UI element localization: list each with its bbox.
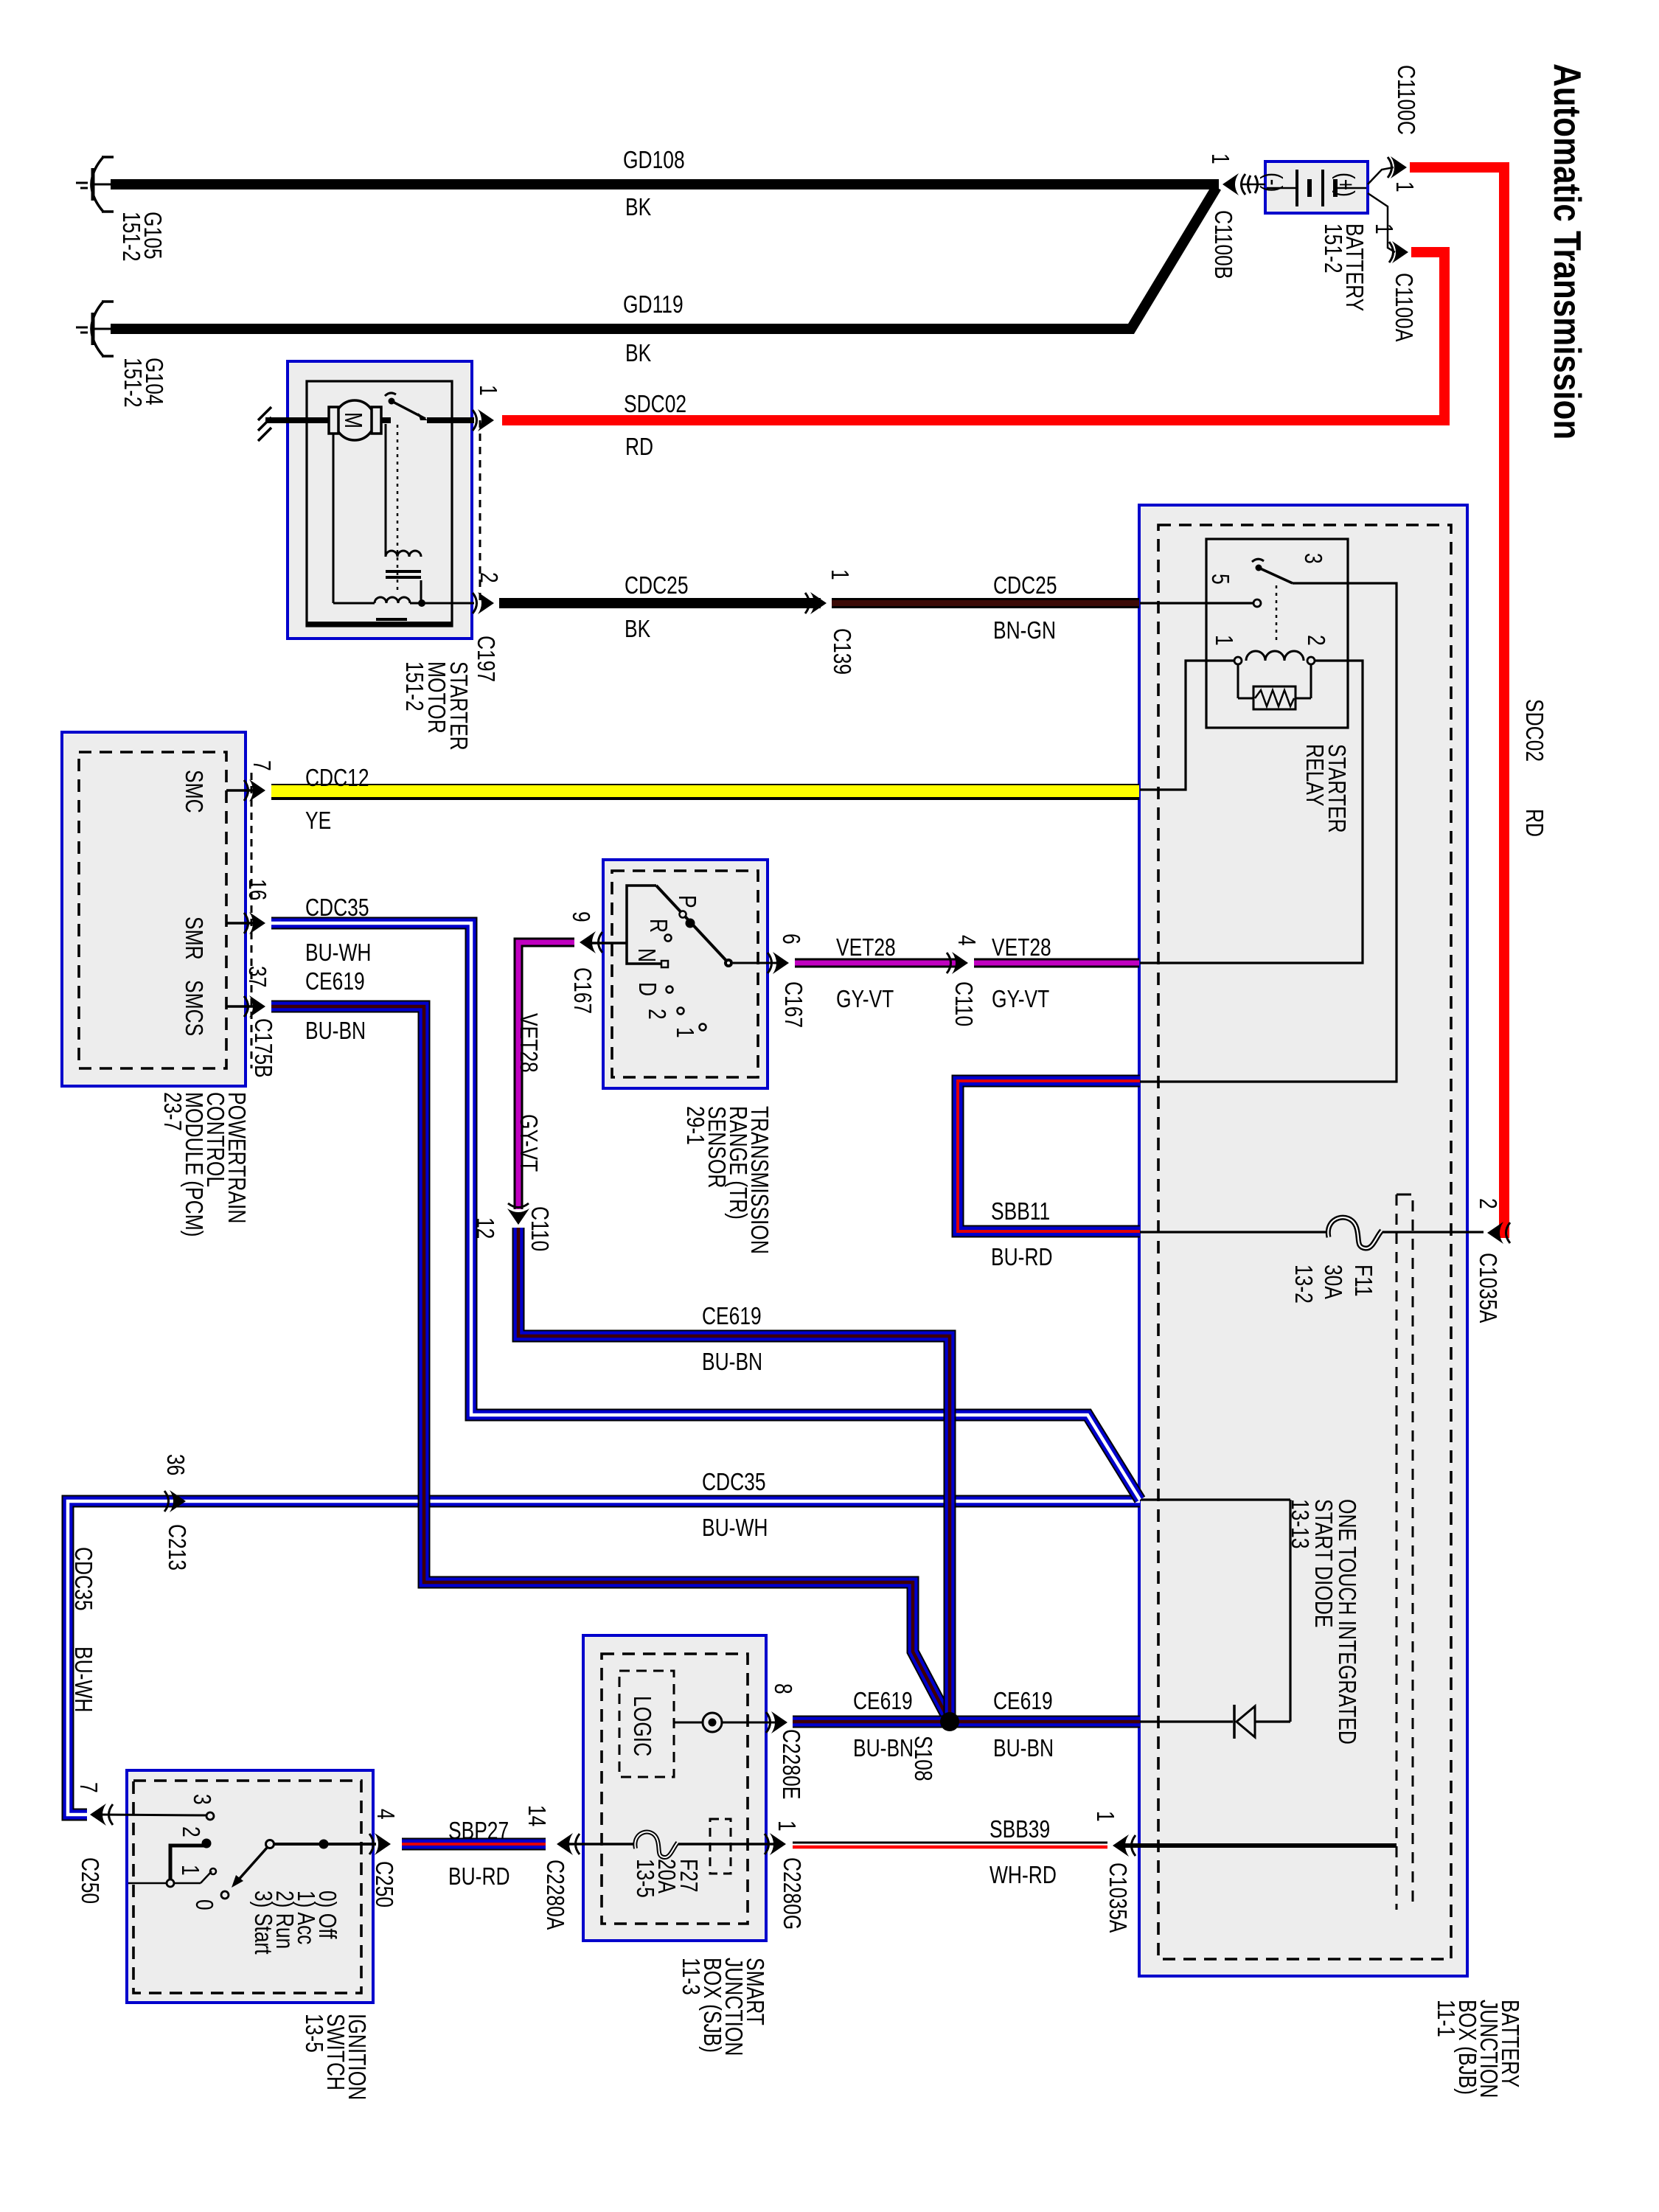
svg-text:C139: C139 [828,628,855,675]
svg-text:C110: C110 [950,981,976,1026]
ignition switch box outline [127,1770,373,2003]
connector PCM SMCS pin 37 [244,995,265,1018]
wire CDC25 BK [499,598,821,608]
svg-text:C1100B: C1100B [1209,210,1236,279]
svg-text:G105151-2: G105151-2 [117,212,165,262]
svg-text:2: 2 [177,1826,204,1837]
label 1 C139 [826,569,855,675]
svg-text:SMR: SMR [180,917,206,960]
label CDC35 BU-WH middle [702,1469,768,1541]
starter motor M [329,400,381,440]
label 14 C2280A [523,1805,568,1930]
label CDC25 BN-GN [993,572,1057,644]
svg-text:BU-RD: BU-RD [991,1244,1053,1270]
label VET28 GY-VT left [836,934,896,1012]
svg-text:BU-BN: BU-BN [853,1735,914,1761]
relay pin 1 internal wire [1140,661,1234,790]
svg-text:CDC25: CDC25 [993,572,1057,599]
ignition switch contact 2 [128,1826,212,1887]
junction solenoid coils [418,599,425,607]
svg-text:D: D [633,982,660,996]
svg-text:SDC02: SDC02 [1520,699,1547,762]
relay contact pin 5 [1206,574,1261,607]
svg-text:VET28: VET28 [992,934,1051,961]
connector PCM SMR pin 16 [244,912,265,934]
svg-text:SMARTJUNCTIONBOX (SJB)11-3: SMARTJUNCTIONBOX (SJB)11-3 [677,1958,768,2056]
svg-text:BU-WH: BU-WH [702,1514,768,1541]
SJB output circled dot [674,1713,778,1732]
label CDC12 YE [305,765,369,834]
label VET28 GY-VT vertical [515,1013,541,1172]
label TRANSMISSION RANGE (TR) SENSOR 29-1 [681,1106,772,1254]
wire SDC02 RD from C1100A to starter [502,252,1444,420]
label SDC02 RD horizontal [624,391,686,460]
svg-text:30A: 30A [1319,1265,1346,1299]
svg-text:(+): (+) [1332,173,1358,197]
chassis ground at starter motor [258,407,271,441]
TR contact D [633,982,672,996]
svg-text:C2280A: C2280A [541,1860,568,1930]
label F27 20A 13-5 [631,1859,701,1898]
svg-text:SDC02: SDC02 [624,391,686,417]
label GD108 BK [623,147,685,220]
svg-text:BU-BN: BU-BN [305,1018,366,1044]
battery positive lead to C1100C [1368,156,1407,184]
svg-text:2: 2 [1474,1198,1500,1209]
connector C197 dashed line [479,420,481,603]
wire VET28 GY-VT to BJB [974,959,1139,968]
label G105 151-2 [117,212,165,262]
svg-text:GD119: GD119 [623,291,684,318]
label C175B [249,1018,276,1078]
wire SBB11 BU-RD loop [958,1081,1140,1231]
BJB internal dashed channel [1397,1194,1413,1910]
label SMART JUNCTION BOX (SJB) 11-3 [677,1958,768,2056]
label SMCS [180,980,206,1036]
wire CE619 BU-BN from PCM [271,1006,948,1719]
svg-text:CDC35: CDC35 [69,1547,96,1611]
connector PCM SMC pin 7 [244,779,265,801]
svg-text:C250: C250 [370,1861,397,1907]
label SBB39 WH-RD [990,1816,1057,1888]
starter solenoid plunger dashed link [397,425,399,590]
svg-text:BU-BN: BU-BN [993,1735,1054,1761]
label battery (+) [1332,173,1358,197]
svg-text:13-2: 13-2 [1290,1265,1316,1304]
PCM pin line SMC [226,760,275,790]
svg-text:6: 6 [777,933,804,945]
connector starter pin 1 [473,409,494,431]
ignition switch output wire [274,1840,376,1849]
ignition switch contact 3 [99,1794,215,1820]
label C197 [472,636,498,682]
ignition switch contact 0 [190,1891,229,1910]
label 1 C1100B [1206,153,1236,279]
label 4 C250 [370,1809,398,1907]
wire CDC35 BU-WH from PCM [271,923,1140,1500]
svg-text:VET28: VET28 [515,1013,541,1073]
wire CDC25 BN-GN [832,598,1139,608]
wire SBP27 BU-RD [402,1838,546,1851]
label battery (-) [1259,173,1286,192]
label BATTERY JUNCTION BOX (BJB) 11-1 [1432,2000,1523,2098]
TR contact 2 [643,1008,684,1020]
svg-text:4: 4 [953,935,979,946]
label GD119 BK [623,291,684,366]
svg-text:7: 7 [74,1782,101,1793]
wire VET28 GY-VT from TR sensor pin 6 [795,959,956,968]
label CDC35 BU-WH vertical [69,1547,96,1712]
relay switch arm pin 3 [1252,553,1326,583]
label 1 C2280G [773,1820,804,1930]
svg-text:RD: RD [625,434,653,460]
fuse F27 element [635,1832,678,1857]
svg-text:SMCS: SMCS [180,980,206,1036]
connector C1100B [1222,173,1265,195]
label BATTERY 151-2 [1319,223,1367,311]
svg-text:2: 2 [1302,635,1329,646]
battery positive lead to C1100A [1368,193,1408,263]
svg-text:POWERTRAINCONTROLMODULE (PCM)2: POWERTRAINCONTROLMODULE (PCM)23-7 [159,1092,249,1237]
connector starter pin 2 [473,592,494,614]
svg-text:SBB11: SBB11 [991,1198,1050,1225]
relay coil [1210,635,1329,664]
junction S108 [940,1712,959,1731]
wire CDC12 YE [271,784,1139,800]
svg-text:STARTERMOTOR151-2: STARTERMOTOR151-2 [400,661,471,751]
svg-text:CDC12: CDC12 [305,765,369,791]
connector 2 C1035A [1487,1222,1510,1244]
label SDC02 RD vertical [1520,699,1547,837]
relay pin 3 internal wire [1140,583,1397,1082]
wire VET28 GY-VT from TR sensor pin 9 down [518,942,574,1209]
smart junction box SJB outline [583,1635,766,1941]
svg-text:C250: C250 [76,1857,102,1904]
battery junction box BJB outline [1139,505,1467,1976]
wire CE619 BU-BN S108 row [793,1716,1140,1728]
svg-text:GY-VT: GY-VT [836,986,894,1012]
svg-text:C167: C167 [779,981,806,1028]
svg-text:Automatic Transmission: Automatic Transmission [1545,63,1588,439]
connector 14 C2280A [557,1833,580,1855]
label VET28 GY-VT right [992,934,1051,1012]
wire CE619 BU-BN from C110 to S108 [518,1228,950,1722]
label F11 30A 13-2 [1290,1265,1376,1304]
svg-text:1: 1 [1370,223,1397,234]
label 9 C167 [567,911,595,1014]
relay pin 2 internal wire [1140,661,1363,963]
SJB fuse F27 wire [566,1843,779,1846]
svg-text:BU-BN: BU-BN [702,1349,762,1375]
label CE619 BU-BN middle [702,1303,762,1375]
svg-text:(-): (-) [1259,173,1286,192]
svg-text:G104151-2: G104151-2 [119,358,167,408]
svg-text:P: P [673,895,700,908]
svg-text:BN-GN: BN-GN [993,617,1056,644]
label STARTER MOTOR 151-2 [400,661,471,751]
svg-text:4: 4 [372,1809,398,1820]
label 4 C110 [950,935,979,1026]
svg-text:14: 14 [523,1805,549,1826]
label S108 [909,1736,936,1781]
svg-text:1: 1 [176,1865,203,1876]
connector 12 C110 [507,1203,529,1225]
PCM pin line SMCS [226,966,271,1006]
svg-text:IGNITIONSWITCH13-5: IGNITIONSWITCH13-5 [300,2014,369,2100]
label 12 C110 [471,1206,552,1251]
one touch integrated start diode internal wires [1140,1500,1290,1722]
diode one touch integrated start [1234,1705,1255,1739]
transmission range TR sensor box outline [603,860,768,1088]
label CE619 BU-BN at PCM [305,968,366,1044]
starter solenoid switch [381,393,474,420]
svg-text:1: 1 [773,1820,799,1832]
svg-text:GY-VT: GY-VT [992,986,1049,1012]
title Automatic Transmission [1545,63,1588,439]
label SBP27 BU-RD [448,1818,510,1890]
label CDC35 BU-WH at PCM [305,894,371,966]
TR contact P [673,895,700,908]
label 1 C1100C [1391,65,1419,192]
svg-text:C167: C167 [568,967,595,1014]
TR sensor contact bracket [586,886,661,964]
svg-text:CDC25: CDC25 [625,572,689,599]
svg-text:CE619: CE619 [853,1688,913,1714]
LOGIC box in SJB [619,1671,674,1777]
svg-text:C1035A: C1035A [1104,1863,1130,1933]
label 36 C213 [161,1454,189,1571]
svg-text:R: R [644,919,671,933]
svg-text:VET28: VET28 [836,934,896,961]
connector 1 C1035A [1113,1834,1135,1857]
svg-text:8: 8 [769,1683,796,1694]
svg-text:GY-VT: GY-VT [515,1114,541,1172]
connector 1 C139 [805,592,827,614]
svg-text:SMC: SMC [180,770,206,813]
relay resistor [1238,664,1311,709]
svg-text:36: 36 [161,1454,188,1475]
svg-text:WH-RD: WH-RD [990,1862,1057,1888]
svg-text:CDC35: CDC35 [702,1469,766,1495]
svg-text:7: 7 [248,760,274,771]
label 2 C1035A [1474,1198,1500,1323]
svg-text:C197: C197 [472,636,498,682]
svg-text:1: 1 [1091,1811,1118,1822]
label SMC [180,770,206,813]
connector 4 C250 [369,1833,391,1855]
SJB dashed element box [710,1819,731,1874]
fuse F11 internal wire [1140,1231,1484,1233]
label 1 C1100A [1370,223,1416,341]
ground G105 [76,157,114,212]
connector 36 C213 [164,1490,186,1512]
svg-text:1: 1 [826,569,852,580]
svg-text:CE619: CE619 [702,1303,762,1329]
ignition switch contact 1 [176,1865,216,1876]
svg-text:C110: C110 [526,1206,552,1251]
svg-text:12: 12 [471,1217,498,1239]
svg-text:GD108: GD108 [623,147,685,173]
wire ground to motor [265,417,330,423]
label G104 151-2 [119,358,167,408]
starter solenoid pull-in coil [386,424,421,603]
wire SDC02 RD from C1100C down right side [1410,167,1504,1233]
svg-text:BATTERYJUNCTIONBOX (BJB)11-1: BATTERYJUNCTIONBOX (BJB)11-1 [1432,2000,1523,2098]
wire SBB39 WH-RD [793,1843,1107,1847]
svg-text:2: 2 [475,572,501,583]
label CDC25 BK [625,572,689,642]
label 8 C2280E [769,1683,804,1799]
svg-text:3: 3 [1299,553,1326,564]
pin 1 starter [474,385,501,396]
connector 7 C250 [90,1804,113,1826]
svg-text:N: N [633,948,659,962]
svg-text:C175B: C175B [249,1018,276,1078]
svg-text:CE619: CE619 [993,1688,1053,1714]
svg-text:1: 1 [1391,181,1417,192]
starter relay box [1206,539,1348,728]
battery cell symbol [1267,170,1366,206]
label ignition positions 0) Off 1) Acc 2) Run 3) Start [249,1891,340,1955]
label POWERTRAIN CONTROL MODULE (PCM) 23-7 [159,1092,249,1237]
label 7 C250 [74,1782,102,1904]
connector 1 C2280G [765,1833,786,1855]
connector 9 C167 [580,931,602,953]
TR sensor wiper arm [656,886,728,962]
PCM pin line SMR [226,879,271,923]
svg-text:13-5: 13-5 [631,1859,658,1898]
svg-text:SBP27: SBP27 [448,1818,509,1844]
connector C175B dashed line [251,773,253,1068]
svg-text:SBB39: SBB39 [990,1816,1050,1843]
svg-text:RD: RD [1520,809,1547,837]
label IGNITION SWITCH 13-5 [300,2014,369,2100]
svg-text:LOGIC: LOGIC [628,1696,655,1756]
wire GD108 BK [111,179,1219,189]
svg-text:CDC35: CDC35 [305,894,369,921]
svg-text:F11: F11 [1349,1265,1376,1297]
svg-text:YE: YE [305,807,331,834]
svg-text:M: M [339,412,366,428]
TR contact R [644,919,671,942]
svg-text:BK: BK [625,194,651,220]
svg-text:1: 1 [671,1027,698,1038]
ground G104 [76,302,114,356]
svg-text:1: 1 [1206,153,1233,164]
svg-text:C2280E: C2280E [777,1729,804,1799]
TR sensor pivot [724,959,780,967]
svg-text:9: 9 [567,911,594,922]
label SBB11 BU-RD [991,1198,1053,1270]
starter motor box outline [288,361,472,639]
relay plunger dotted link [1276,585,1278,642]
label ONE TOUCH INTEGRATED START DIODE 13-13 [1286,1499,1360,1745]
BJB internal wire to C1035A [1119,1843,1397,1848]
label STARTER RELAY [1301,744,1349,833]
svg-text:CE619: CE619 [305,968,365,995]
svg-text:3: 3 [188,1794,215,1805]
TR contact 1 [671,1024,706,1038]
svg-text:BU-WH: BU-WH [69,1646,96,1712]
svg-text:0: 0 [190,1899,217,1910]
TR contact N [633,948,668,967]
svg-text:37: 37 [243,966,270,987]
svg-text:C1100A: C1100A [1390,273,1416,341]
battery box outline [1265,161,1368,213]
label 6 C167 [777,933,806,1028]
ignition switch wiper arm [232,1840,274,1888]
label CE619 BU-BN right of S108 [993,1688,1054,1761]
svg-text:5: 5 [1206,574,1233,585]
svg-text:BU-RD: BU-RD [448,1863,510,1890]
svg-text:16: 16 [243,879,270,900]
relay pin 5 internal wire [1140,602,1253,604]
label SMR [180,917,206,960]
svg-text:1: 1 [1210,635,1237,646]
svg-text:C1100C: C1100C [1392,65,1419,135]
powertrain control module PCM box outline [62,732,246,1086]
pin 2 starter [475,572,501,583]
svg-text:BK: BK [625,616,650,642]
fuse F11 element [1328,1217,1382,1248]
svg-text:BATTERY151-2: BATTERY151-2 [1319,223,1367,311]
wire GD119 BK [111,187,1217,329]
svg-text:1: 1 [474,385,501,396]
svg-text:C213: C213 [163,1524,189,1571]
connector 8 C2280E [766,1711,787,1733]
svg-text:2: 2 [643,1009,669,1020]
starter solenoid hold-in coil [333,434,474,627]
label 1 C1035A [1091,1811,1130,1933]
svg-text:BK: BK [625,340,651,366]
label CE619 BU-BN left of S108 [853,1688,914,1761]
svg-text:TRANSMISSIONRANGE (TR)SENSOR29: TRANSMISSIONRANGE (TR)SENSOR29-1 [681,1106,772,1254]
svg-text:C1035A: C1035A [1474,1253,1500,1323]
svg-text:BU-WH: BU-WH [305,939,371,966]
connector 4 C110 [947,952,968,974]
svg-text:C2280G: C2280G [778,1857,804,1930]
connector 6 C167 [768,952,789,974]
wire CDC35 BU-WH main run [68,1501,1140,1815]
